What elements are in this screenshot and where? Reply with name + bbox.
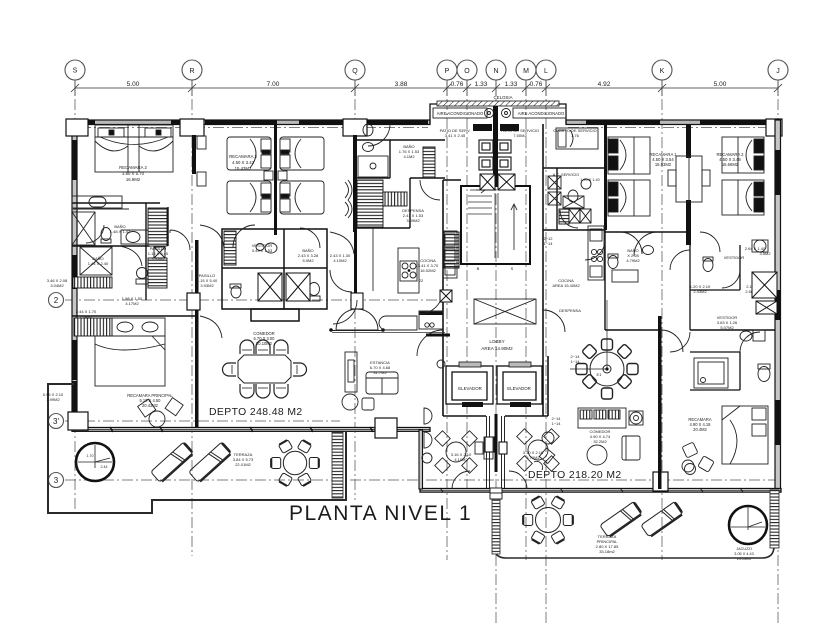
sofa comedor right apt (578, 408, 626, 428)
svg-text:1.33: 1.33 (475, 81, 488, 88)
bed recamara bottom right (722, 406, 768, 464)
svg-text:RECAMARA 2: RECAMARA 2 (119, 165, 147, 170)
svg-text:20.10M2: 20.10M2 (256, 341, 273, 346)
svg-text:3.41 X 2.45: 3.41 X 2.45 (445, 133, 466, 138)
recamara 3 label (229, 154, 257, 171)
armchairs left edge 218 (422, 408, 432, 463)
svg-text:4.92: 4.92 (598, 81, 611, 88)
elevator 2 (497, 362, 542, 404)
banquette estancia 248 (379, 316, 417, 330)
svg-text:O: O (464, 68, 470, 75)
bottom wall right apartment (420, 489, 781, 493)
toilet bath 1 (101, 228, 150, 245)
table labels 218 (451, 450, 544, 462)
cocina label left apt (418, 258, 439, 273)
lounger 2 terrace 218 (641, 501, 684, 538)
vanity bath 1 left (72, 196, 129, 209)
svg-text:3: 3 (54, 476, 59, 485)
column end of wall Q mid (351, 293, 363, 309)
recamara 2 right label (717, 152, 745, 167)
svg-text:4.17M2: 4.17M2 (125, 301, 139, 306)
aire acondicionado unit left (433, 108, 494, 118)
svg-text:E1: E1 (597, 372, 603, 377)
recamara 1 label (650, 152, 678, 167)
svg-text:5.00: 5.00 (127, 81, 140, 88)
svg-text:RECAMARA 3: RECAMARA 3 (229, 154, 257, 159)
wall recamara1/2 divider right apt (686, 124, 691, 245)
column left wall at terrace (68, 412, 88, 430)
round table 2 depto 218 (517, 429, 560, 472)
service rooms wall (543, 124, 607, 230)
svg-text:DEPTO 218.20 M2: DEPTO 218.20 M2 (528, 470, 622, 481)
corridor wall right apt (605, 230, 775, 330)
recamara principal label (127, 393, 173, 408)
svg-text:VESTIDOR: VESTIDOR (724, 255, 745, 260)
bath block labels (252, 243, 351, 263)
cabinet estancia 248 (419, 311, 443, 329)
svg-text:3.5M2: 3.5M2 (759, 251, 771, 256)
column grid R top (180, 119, 204, 136)
terrace 248 outline (48, 384, 346, 513)
plants right apt (534, 432, 696, 475)
lobby center wall (495, 414, 498, 472)
level change line estancia (332, 333, 450, 337)
svg-text:1.44 X 2.40: 1.44 X 2.40 (88, 261, 109, 266)
svg-text:3.93M2: 3.93M2 (151, 256, 165, 261)
celosia label (493, 95, 512, 100)
dim texts small left (47, 278, 143, 306)
svg-text:4.70M2: 4.70M2 (526, 455, 540, 460)
servicio bath fixtures (548, 176, 591, 218)
elevator bottom poche (462, 402, 531, 407)
svg-text:J: J (776, 68, 780, 75)
vestidor X closets (752, 272, 777, 314)
wall black poche segments top (84, 120, 766, 126)
comedor chairs top (240, 340, 288, 354)
AC poche rects (473, 124, 519, 131)
door arcs left apartment (86, 124, 440, 338)
jacuzzi 248 detail (78, 445, 112, 468)
wall living/recamara divider right apt (658, 316, 662, 489)
shower bath 2 (80, 247, 112, 275)
svg-text:7.50M2: 7.50M2 (513, 133, 527, 138)
grid bubbles top row (65, 60, 788, 80)
left grid bubble 3' (49, 414, 64, 429)
wall baths row left top (72, 203, 160, 246)
bed recamara principal (95, 318, 165, 386)
svg-text:3.88: 3.88 (395, 81, 408, 88)
small squares grid P wall (440, 290, 452, 302)
svg-text:ELEVADOR: ELEVADOR (507, 386, 531, 391)
wall recamara principal right (195, 240, 199, 428)
shower bath 1 (72, 212, 95, 245)
svg-text:S: S (511, 266, 514, 271)
svg-text:20.4M2: 20.4M2 (693, 427, 707, 432)
svg-text:P: P (445, 68, 450, 75)
svg-text:22: 22 (419, 278, 424, 283)
depto 218 label (528, 470, 622, 481)
svg-text:3.80 X 5.70: 3.80 X 5.70 (122, 171, 145, 176)
svg-text:4.50 X 3.43: 4.50 X 3.43 (232, 160, 255, 165)
svg-text:3': 3' (53, 417, 59, 426)
grid vertical dash-dot lines (75, 80, 778, 625)
terrace 218 outline (494, 492, 774, 558)
svg-text:DESPENSA: DESPENSA (559, 308, 581, 313)
round table terrace 218 (523, 496, 573, 544)
svg-text:DEPTO 248.48 M2: DEPTO 248.48 M2 (209, 407, 303, 418)
stool chairs principal (138, 398, 184, 427)
vestidor labels (690, 246, 772, 330)
lounger 2 terrace 248 (189, 442, 233, 483)
armchair curves right of recamara 4 (345, 180, 352, 218)
laundry hatch right apt (559, 209, 569, 224)
comedor label left apt (253, 331, 275, 346)
svg-text:3.04M2: 3.04M2 (50, 283, 64, 288)
svg-text:S: S (73, 68, 78, 75)
svg-text:2.43M2: 2.43M2 (693, 289, 707, 294)
svg-text:1.48 X 1.42: 1.48 X 1.42 (110, 229, 131, 234)
bath right apt fixtures (608, 246, 654, 283)
servicio labels small (553, 173, 600, 182)
small text 2.44 (76, 309, 97, 319)
recamara 2 label (119, 165, 147, 182)
jardinera strip terrace 218 left (492, 494, 500, 554)
core stair shaft (461, 186, 530, 264)
svg-text:4.1M2: 4.1M2 (403, 154, 415, 159)
stair run lines (468, 187, 517, 258)
vanity hatch bath 2 (73, 277, 112, 288)
outer wall right (775, 120, 781, 492)
round table terrace 248 (271, 440, 319, 487)
terraza 248 label (233, 452, 254, 467)
svg-text:15.66M2: 15.66M2 (722, 162, 739, 167)
washer boxes right apt (569, 209, 591, 223)
svg-text:1~14: 1~14 (570, 359, 580, 364)
bath lower right toilet (740, 330, 770, 382)
small round table right apt (587, 445, 607, 465)
bath block vanity (230, 243, 320, 301)
beds recamara 3 (227, 137, 273, 214)
small X box pasillo (154, 247, 165, 258)
shower servicio (563, 196, 584, 208)
bath block closet hatch (224, 231, 236, 265)
beds recamara 1 right apt (608, 137, 650, 216)
column at grid Q bottom wall (375, 418, 397, 438)
grid horizontal dash-dot lines (65, 128, 781, 481)
jardinera strip terrace 248 (332, 432, 343, 498)
svg-text:2: 2 (54, 296, 59, 305)
lounge chair right apt (622, 436, 640, 460)
kitchen bath toilet (363, 124, 374, 152)
lounger 1 terrace 218 (600, 501, 643, 538)
svg-text:LOBBY: LOBBY (489, 339, 504, 344)
bottom wall left apartment (72, 427, 430, 432)
svg-text:CELOSIA: CELOSIA (493, 95, 512, 100)
grid bubble letters (73, 68, 780, 76)
plant circle lobby (437, 360, 445, 368)
svg-text:3.43 X 1.53: 3.43 X 1.53 (252, 248, 273, 253)
despensa label (402, 208, 424, 223)
armchair estancia 248 (342, 394, 374, 410)
cocina label right apt (552, 278, 581, 313)
core center wall black (493, 106, 498, 186)
round tables with 4 chairs depto 218 left (435, 431, 478, 474)
lobby entry corridor walls (485, 416, 507, 489)
comedor table left apt (238, 355, 291, 383)
svg-text:AREA 14.90M2: AREA 14.90M2 (481, 346, 513, 351)
svg-text:2.44: 2.44 (101, 465, 108, 469)
elevator 1 (446, 362, 493, 404)
cuarto servicio bed (556, 128, 598, 149)
svg-text:B: B (477, 266, 480, 271)
column grid K bottom wall (653, 472, 668, 491)
comedor chairs bottom (240, 384, 288, 398)
wall recamara principal top (72, 315, 196, 317)
svg-text:16.9M2: 16.9M2 (126, 177, 141, 182)
closet strip 2 (148, 258, 167, 288)
svg-text:AREA 15.40M2: AREA 15.40M2 (552, 283, 580, 288)
desk on wall R (197, 136, 206, 186)
svg-text:1.70 X 1.40: 1.70 X 1.40 (580, 178, 599, 182)
svg-text:0.76: 0.76 (451, 81, 464, 88)
svg-text:16.02M2: 16.02M2 (420, 268, 436, 273)
svg-text:4.10M2: 4.10M2 (333, 258, 347, 263)
svg-text:AIRE ACONDICIONADO: AIRE ACONDICIONADO (518, 111, 565, 116)
kitchen stairs hatch L (357, 180, 407, 227)
wall bedroom3/kitchen divider (353, 135, 357, 293)
svg-text:M: M (523, 68, 529, 75)
left grid bubble 2 (49, 293, 64, 308)
svg-text:15.93M2: 15.93M2 (655, 162, 672, 167)
wall between estancia 248 and depto 218 (419, 430, 423, 489)
core lower X landing (474, 299, 536, 324)
svg-text:1.99M2: 1.99M2 (46, 397, 60, 402)
kitchen bath shower (358, 156, 388, 177)
bed recamara 2 top-left (95, 125, 173, 172)
svg-text:0.76: 0.76 (530, 81, 543, 88)
depto 248 label (209, 407, 303, 418)
kitchen left apt walls (357, 140, 445, 291)
svg-text:4.79M2: 4.79M2 (626, 258, 640, 263)
jacuzzi terrace 248 (76, 443, 114, 481)
kitchen bath label (399, 144, 420, 159)
beds recamara 4 (278, 137, 324, 214)
core ducts top squares (479, 140, 511, 170)
patio servicio labels (440, 128, 597, 138)
wall recamara3/4 divider (274, 124, 277, 235)
estancia 248 label (370, 360, 391, 375)
left grid bubble 3 (49, 473, 64, 488)
svg-text:R: R (189, 68, 194, 75)
column top-left corner (66, 119, 88, 136)
planta nivel 1 title (289, 502, 472, 525)
jacuzzi 218 label (734, 547, 753, 561)
svg-text:3.69M2: 3.69M2 (406, 218, 420, 223)
core X boxes below ducts (480, 174, 515, 190)
svg-text:1~14: 1~14 (551, 421, 561, 426)
svg-text:JACUZZI: JACUZZI (736, 547, 752, 551)
outer wall left (72, 120, 77, 413)
lobby label (481, 339, 513, 351)
comedor label right apt (590, 429, 611, 444)
vestidor top right fixtures (703, 240, 768, 272)
wall pasillo left apt (146, 203, 168, 300)
svg-text:22.01M2: 22.01M2 (235, 462, 251, 467)
svg-text:PLANTA NIVEL 1: PLANTA NIVEL 1 (289, 502, 472, 525)
svg-text:1.70: 1.70 (87, 454, 94, 458)
kitchen appliance strip (443, 231, 457, 278)
desk between tables (475, 437, 493, 459)
svg-text:14.13m2: 14.13m2 (737, 557, 752, 561)
beds recamara 2 right apt (722, 137, 764, 215)
jacuzzi terrace 218 (729, 506, 767, 544)
bath right apt label (626, 248, 640, 263)
bath 2 label (88, 256, 109, 266)
svg-text:A.C. SERVICIO: A.C. SERVICIO (553, 173, 580, 177)
kitchen hatch strip right (423, 147, 435, 178)
svg-text:5.07M2: 5.07M2 (720, 325, 734, 330)
recamara bottom right label (688, 417, 711, 432)
bath block closet X boxes (258, 273, 310, 301)
bath lower right shower (694, 358, 728, 388)
svg-text:AIRE ACONDICIONADO: AIRE ACONDICIONADO (437, 111, 484, 116)
outer wall top left section (72, 120, 779, 125)
wall bedroom2/3 divider (192, 135, 196, 174)
svg-text:32.2M2: 32.2M2 (593, 439, 607, 444)
svg-text:33.18m2: 33.18m2 (599, 549, 615, 554)
column grid Q top (343, 119, 367, 136)
jacuzzi 218 detail (731, 506, 765, 530)
window ticks bottom wall 218 (440, 488, 743, 492)
jardinera strip terrace 218 right (770, 490, 779, 548)
lounger 1 terrace 248 (151, 442, 195, 483)
comedor end chairs (223, 363, 307, 376)
sofa estancia 248 (366, 372, 398, 394)
vestidor walls right apt (690, 245, 740, 390)
small text left edge (43, 392, 64, 402)
pasillo label 2 (197, 273, 218, 288)
bath 1 label (110, 224, 131, 234)
svg-text:7.00: 7.00 (267, 81, 280, 88)
toilet bath 2 (136, 268, 148, 285)
pasillo label left (148, 246, 169, 261)
chairs bottom right bedroom (682, 442, 714, 472)
stair arrows labels core (419, 236, 562, 426)
core left duct shaft (444, 232, 459, 268)
svg-text:Q: Q (352, 68, 358, 75)
pendant lamp estancia 248 (329, 309, 385, 332)
terraza principal label (596, 534, 619, 554)
svg-text:4.10M2: 4.10M2 (454, 457, 468, 462)
svg-text:3.05 X 4.43: 3.05 X 4.43 (734, 552, 753, 556)
svg-text:20.43M2: 20.43M2 (142, 403, 159, 408)
svg-text:5.00: 5.00 (714, 81, 727, 88)
desk between bedrooms (668, 156, 710, 202)
svg-text:31.7M2: 31.7M2 (373, 370, 387, 375)
core outer walls (443, 124, 548, 416)
top dimension line (71, 80, 782, 96)
aire acondicionado unit right (502, 108, 567, 118)
round dining table right apt (570, 300, 638, 399)
entry steps (490, 488, 502, 499)
closet hatch recamara principal (74, 318, 112, 336)
svg-text:5.9M2: 5.9M2 (302, 258, 314, 263)
dimension labels (127, 81, 727, 88)
AC enclosure protrusion (430, 101, 566, 124)
svg-text:3.93M2: 3.93M2 (200, 283, 214, 288)
svg-text:1.33: 1.33 (505, 81, 518, 88)
svg-text:K: K (660, 68, 665, 75)
closet strip pasillo (148, 208, 167, 246)
column top right (766, 119, 782, 136)
lamp circle right apt (629, 411, 643, 425)
svg-text:L: L (544, 68, 548, 75)
kitchen island (398, 248, 419, 293)
column grid R mid (187, 293, 200, 310)
svg-text:ELEVADOR: ELEVADOR (458, 386, 482, 391)
svg-text:1~14: 1~14 (543, 241, 553, 246)
svg-text:N: N (493, 68, 498, 75)
door arcs core and right (417, 210, 760, 489)
kitchen right apt appliance strip (588, 226, 604, 280)
bath block center-left outline (222, 229, 327, 321)
svg-text:15.43M2: 15.43M2 (235, 166, 252, 171)
tv console estancia 248 (345, 352, 357, 392)
E1 label (570, 354, 602, 377)
